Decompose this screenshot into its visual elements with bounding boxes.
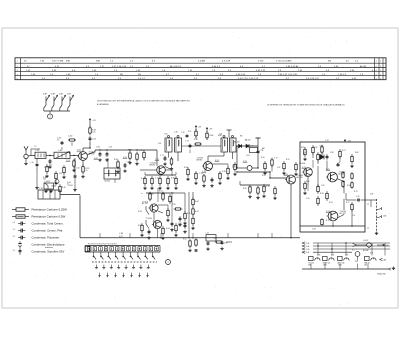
svg-text:C.63: C.63 bbox=[92, 139, 96, 141]
svg-text:C.78: C.78 bbox=[181, 132, 184, 134]
svg-text:SW: SW bbox=[355, 261, 358, 263]
svg-text:3.4P: 3.4P bbox=[43, 94, 48, 96]
svg-text:Condensat. Total Ceram.: Condensat. Total Ceram. bbox=[32, 222, 64, 226]
svg-text:5.4F: 5.4F bbox=[306, 243, 309, 245]
svg-text:4.0 AM: 4.0 AM bbox=[198, 59, 205, 62]
svg-text:S.2: S.2 bbox=[352, 250, 354, 252]
svg-text:S.CB: S.CB bbox=[138, 211, 142, 213]
svg-text:Resistance Carbone 0,5W: Resistance Carbone 0,5W bbox=[32, 215, 66, 219]
svg-text:5.4P: 5.4P bbox=[51, 94, 56, 96]
svg-text:C.82: C.82 bbox=[277, 167, 280, 169]
svg-text:C.79: C.79 bbox=[266, 186, 270, 188]
svg-text:R.74: R.74 bbox=[370, 253, 373, 255]
svg-text:R.70: R.70 bbox=[354, 191, 357, 193]
svg-text:AV 6B: AV 6B bbox=[360, 65, 367, 68]
svg-text:1,5n: 1,5n bbox=[31, 162, 34, 164]
svg-text:4: 4 bbox=[376, 70, 377, 72]
svg-text:5.4F: 5.4F bbox=[370, 194, 373, 196]
svg-text:R.46: R.46 bbox=[171, 178, 175, 180]
svg-text:C.87: C.87 bbox=[314, 147, 317, 149]
svg-text:R.52: R.52 bbox=[286, 159, 290, 161]
svg-text:R.44: R.44 bbox=[141, 178, 145, 180]
svg-text:L.37: L.37 bbox=[325, 140, 329, 142]
svg-text:1: 1 bbox=[380, 70, 381, 72]
svg-text:P.10 P.11 P.12 P.13 P.14: P.10 P.11 P.12 P.13 P.14 P.15 P.16 P.17 bbox=[88, 243, 117, 245]
svg-text:L.40: L.40 bbox=[250, 146, 253, 148]
svg-text:C.93: C.93 bbox=[317, 255, 320, 257]
svg-text:T1.0164: T1.0164 bbox=[146, 218, 152, 220]
svg-text:2.702 22.04 AM: 2.702 22.04 AM bbox=[276, 59, 292, 62]
svg-text:Condensat. Ceram. Plat: Condensat. Ceram. Plat bbox=[32, 229, 63, 233]
svg-text:2.4P: 2.4P bbox=[59, 94, 64, 96]
svg-text:C.71: C.71 bbox=[160, 155, 164, 157]
svg-text:4.4F: 4.4F bbox=[306, 252, 309, 254]
svg-text:Condensat. Styroflex 63V: Condensat. Styroflex 63V bbox=[32, 250, 65, 254]
svg-text:R.43: R.43 bbox=[114, 159, 118, 161]
svg-text:5.4 1.29 1.47: 5.4 1.29 1.47 bbox=[306, 78, 320, 80]
svg-text:C.62: C.62 bbox=[76, 168, 80, 170]
svg-text:3.00 1.00: 3.00 1.00 bbox=[236, 74, 246, 76]
svg-text:L.41: L.41 bbox=[206, 232, 209, 234]
svg-text:5.4 7.4: 5.4 7.4 bbox=[138, 78, 145, 80]
svg-text:4.34 2.32: 4.34 2.32 bbox=[256, 70, 266, 72]
svg-text:C.66: C.66 bbox=[96, 147, 100, 149]
svg-text:L.38: L.38 bbox=[174, 132, 178, 134]
svg-text:R.54: R.54 bbox=[262, 175, 265, 177]
svg-text:L.35: L.35 bbox=[36, 150, 40, 152]
svg-text:AF.185: AF.185 bbox=[150, 163, 156, 166]
svg-text:10k: 10k bbox=[43, 179, 46, 181]
svg-text:1,5: 1,5 bbox=[13, 250, 15, 252]
svg-text:AF.185: AF.185 bbox=[197, 158, 203, 161]
svg-text:R.68: R.68 bbox=[355, 152, 358, 154]
svg-text:A LA MASSE.: A LA MASSE. bbox=[97, 103, 110, 106]
svg-text:AC.126: AC.126 bbox=[142, 202, 148, 205]
svg-text:4.0 4.2E: 4.0 4.2E bbox=[222, 60, 231, 62]
svg-text:49B: 49B bbox=[96, 60, 100, 62]
svg-text:2.94 2.07 AV: 2.94 2.07 AV bbox=[286, 65, 299, 68]
svg-text:C.82: C.82 bbox=[214, 238, 217, 240]
svg-text:C.88: C.88 bbox=[330, 152, 333, 154]
svg-text:2.4F: 2.4F bbox=[306, 246, 309, 248]
svg-text:1k: 1k bbox=[303, 154, 305, 156]
svg-text:TSA.1780: TSA.1780 bbox=[377, 273, 386, 276]
svg-text:AC.132: AC.132 bbox=[297, 176, 303, 179]
svg-text:5n: 5n bbox=[67, 184, 69, 186]
svg-text:R.64: R.64 bbox=[166, 228, 170, 230]
svg-text:R.48: R.48 bbox=[194, 139, 198, 141]
svg-text:R.63: R.63 bbox=[159, 191, 162, 193]
svg-text:4,7k: 4,7k bbox=[49, 165, 52, 167]
svg-text:5.4 6.7 8.7 1.09 1.29: 5.4 6.7 8.7 1.09 1.29 bbox=[238, 78, 259, 80]
svg-text:C.74: C.74 bbox=[185, 141, 189, 143]
svg-text:10kB: 10kB bbox=[338, 265, 342, 267]
svg-text:1k: 1k bbox=[86, 170, 88, 172]
svg-text:AA.129: AA.129 bbox=[245, 139, 251, 142]
svg-text:C.85: C.85 bbox=[172, 204, 176, 206]
svg-text:C.94: C.94 bbox=[331, 255, 334, 257]
svg-text:C.83: C.83 bbox=[312, 229, 316, 231]
svg-text:C.91: C.91 bbox=[352, 215, 355, 217]
svg-text:R.60: R.60 bbox=[183, 239, 186, 241]
svg-text:C.72: C.72 bbox=[155, 178, 159, 180]
svg-text:2.94 1.47 1.26 1.96: 2.94 1.47 1.26 1.96 bbox=[278, 74, 298, 76]
svg-text:5.4F: 5.4F bbox=[158, 143, 161, 145]
svg-text:C.42: C.42 bbox=[356, 196, 359, 198]
svg-text:LES TENSIONS ONT ETE MESUREES: LES TENSIONS ONT ETE MESUREES A L AIDE D… bbox=[97, 100, 191, 103]
svg-text:C.76: C.76 bbox=[199, 173, 203, 175]
svg-text:R.71: R.71 bbox=[346, 202, 349, 204]
svg-text:C.90: C.90 bbox=[306, 198, 309, 200]
svg-text:T1.0164: T1.0164 bbox=[299, 163, 305, 165]
svg-text:1.0164: 1.0164 bbox=[45, 181, 50, 183]
svg-text:R.58: R.58 bbox=[320, 193, 324, 195]
svg-text:2.702: 2.702 bbox=[258, 60, 264, 62]
svg-text:VOL 5k: VOL 5k bbox=[309, 263, 315, 265]
svg-text:R.45: R.45 bbox=[184, 167, 188, 169]
svg-text:1,5: 1,5 bbox=[13, 222, 15, 224]
svg-text:C.84: C.84 bbox=[150, 194, 153, 196]
svg-text:R.59: R.59 bbox=[347, 185, 351, 187]
svg-text:T.41: T.41 bbox=[219, 134, 222, 136]
svg-text:1n: 1n bbox=[57, 140, 59, 142]
svg-text:4: 4 bbox=[376, 78, 377, 80]
svg-text:R.56: R.56 bbox=[320, 146, 324, 148]
svg-text:R.51: R.51 bbox=[188, 131, 191, 133]
svg-text:C.80: C.80 bbox=[224, 243, 227, 245]
svg-text:7.0: 7.0 bbox=[34, 146, 36, 148]
svg-text:C.77: C.77 bbox=[274, 158, 278, 160]
svg-text:L.43.8: L.43.8 bbox=[363, 240, 368, 242]
svg-text:1.26 1.9: 1.26 1.9 bbox=[338, 74, 347, 76]
svg-text:L.36: L.36 bbox=[58, 150, 62, 152]
svg-text:R.67: R.67 bbox=[195, 211, 199, 213]
svg-text:C.38: C.38 bbox=[39, 188, 43, 190]
svg-text:1.5P: 1.5P bbox=[67, 94, 72, 96]
svg-text:R.57: R.57 bbox=[342, 150, 346, 152]
svg-text:10kB: 10kB bbox=[323, 265, 327, 267]
svg-text:745.77 49B: 745.77 49B bbox=[52, 60, 64, 62]
svg-text:LE REPERE DE TENSION EST DONNE: LE REPERE DE TENSION EST DONNE EN DESSOU… bbox=[267, 104, 345, 107]
svg-text:1: 1 bbox=[380, 78, 381, 80]
svg-text:R.49: R.49 bbox=[222, 171, 226, 173]
svg-text:R.69: R.69 bbox=[306, 181, 309, 183]
svg-text:AA.129: AA.129 bbox=[234, 141, 240, 144]
svg-text:1: 1 bbox=[380, 66, 381, 68]
svg-text:C.67: C.67 bbox=[109, 147, 113, 149]
svg-text:4: 4 bbox=[376, 74, 377, 76]
svg-text:C.89: C.89 bbox=[321, 185, 324, 187]
svg-text:2,2k: 2,2k bbox=[92, 131, 95, 133]
svg-text:M.0164: M.0164 bbox=[105, 181, 111, 183]
svg-text:R.72: R.72 bbox=[326, 220, 329, 222]
svg-text:AC.128: AC.128 bbox=[340, 212, 346, 215]
svg-text:T.40: T.40 bbox=[164, 134, 167, 136]
svg-text:R.41: R.41 bbox=[128, 150, 132, 152]
svg-text:1: 1 bbox=[380, 74, 381, 76]
svg-text:AU.4W: AU.4W bbox=[363, 249, 369, 252]
svg-text:R.53: R.53 bbox=[243, 188, 247, 190]
svg-text:4: 4 bbox=[376, 66, 377, 68]
svg-text:4: 4 bbox=[376, 61, 377, 63]
svg-text:49B: 49B bbox=[66, 60, 70, 62]
svg-text:R.42: R.42 bbox=[62, 187, 66, 189]
svg-text:C.86: C.86 bbox=[178, 223, 181, 225]
svg-text:C.95: C.95 bbox=[345, 255, 348, 257]
svg-text:4.04 4.3: 4.04 4.3 bbox=[212, 66, 221, 68]
svg-text:1,5: 1,5 bbox=[13, 236, 15, 238]
svg-text:1: 1 bbox=[380, 61, 381, 63]
svg-text:Condensat. Electrolytique: Condensat. Electrolytique bbox=[32, 243, 65, 247]
svg-text:R.50: R.50 bbox=[261, 157, 265, 159]
svg-text:R.66: R.66 bbox=[195, 201, 199, 203]
svg-text:Condensat. Polyester.: Condensat. Polyester. bbox=[32, 236, 60, 240]
svg-text:AV 4.09 2.5: AV 4.09 2.5 bbox=[170, 65, 182, 68]
svg-text:4.2F: 4.2F bbox=[232, 167, 235, 169]
svg-text:R.55: R.55 bbox=[301, 147, 305, 149]
svg-text:1.2F: 1.2F bbox=[306, 249, 309, 251]
svg-text:Resistance Carbone 0,25W: Resistance Carbone 0,25W bbox=[32, 208, 68, 212]
svg-text:C.70: C.70 bbox=[139, 150, 143, 152]
svg-text:1,5: 1,5 bbox=[13, 229, 15, 231]
svg-text:R.61: R.61 bbox=[329, 202, 333, 204]
svg-text:4M: 4M bbox=[328, 60, 331, 62]
svg-text:1.27 1.26 1.26: 1.27 1.26 1.26 bbox=[112, 66, 127, 68]
